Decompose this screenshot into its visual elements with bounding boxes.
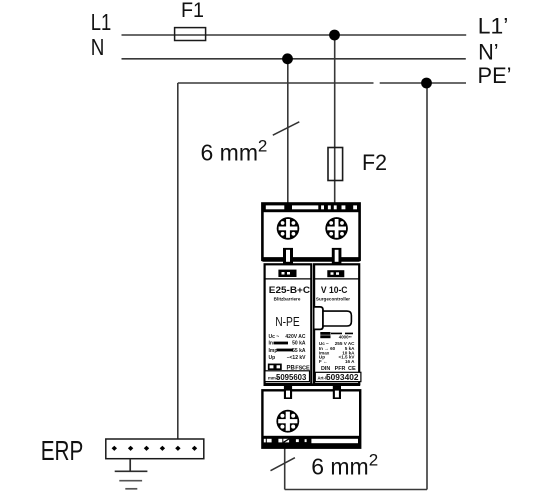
svg-text:5095603: 5095603 bbox=[276, 373, 307, 382]
svg-text:V 10-C: V 10-C bbox=[321, 285, 348, 295]
svg-text:55 kA: 55 kA bbox=[292, 348, 306, 354]
svg-text:Imp: Imp bbox=[269, 348, 278, 354]
svg-text:Up: Up bbox=[269, 355, 276, 361]
svg-text:2: 2 bbox=[258, 137, 267, 156]
svg-text:In: In bbox=[269, 341, 273, 347]
svg-text:Surgecontroller: Surgecontroller bbox=[316, 296, 350, 301]
svg-text:16 A: 16 A bbox=[345, 359, 355, 364]
svg-text:F1: F1 bbox=[181, 0, 204, 22]
svg-text:2: 2 bbox=[369, 451, 378, 470]
svg-text:DIN: DIN bbox=[321, 366, 330, 372]
svg-text:Uc ~: Uc ~ bbox=[269, 334, 280, 340]
svg-text:N: N bbox=[91, 34, 105, 60]
svg-text:6 mm: 6 mm bbox=[311, 454, 369, 480]
svg-text:–<12 kV: –<12 kV bbox=[287, 355, 306, 361]
svg-text:F2: F2 bbox=[362, 150, 387, 175]
svg-text:5093402: 5093402 bbox=[326, 373, 359, 382]
svg-text:4000••: 4000•• bbox=[339, 334, 352, 339]
svg-text:Blitzbarriere: Blitzbarriere bbox=[274, 296, 301, 301]
svg-text:F ←: F ← bbox=[319, 359, 328, 364]
svg-text:L1’: L1’ bbox=[478, 14, 509, 39]
svg-text:ERP: ERP bbox=[41, 435, 84, 466]
svg-text:E25-B+C: E25-B+C bbox=[269, 285, 311, 295]
svg-text:CE: CE bbox=[348, 366, 356, 372]
svg-text:N-PE: N-PE bbox=[275, 314, 300, 329]
svg-text:L1: L1 bbox=[91, 9, 112, 35]
svg-text:PFR: PFR bbox=[335, 366, 346, 372]
svg-text:PE’: PE’ bbox=[478, 63, 512, 88]
svg-text:6 mm: 6 mm bbox=[201, 140, 259, 166]
svg-text:50 kA: 50 kA bbox=[292, 341, 306, 347]
svg-text:N’: N’ bbox=[478, 39, 499, 64]
svg-text:420V AC: 420V AC bbox=[285, 334, 305, 340]
